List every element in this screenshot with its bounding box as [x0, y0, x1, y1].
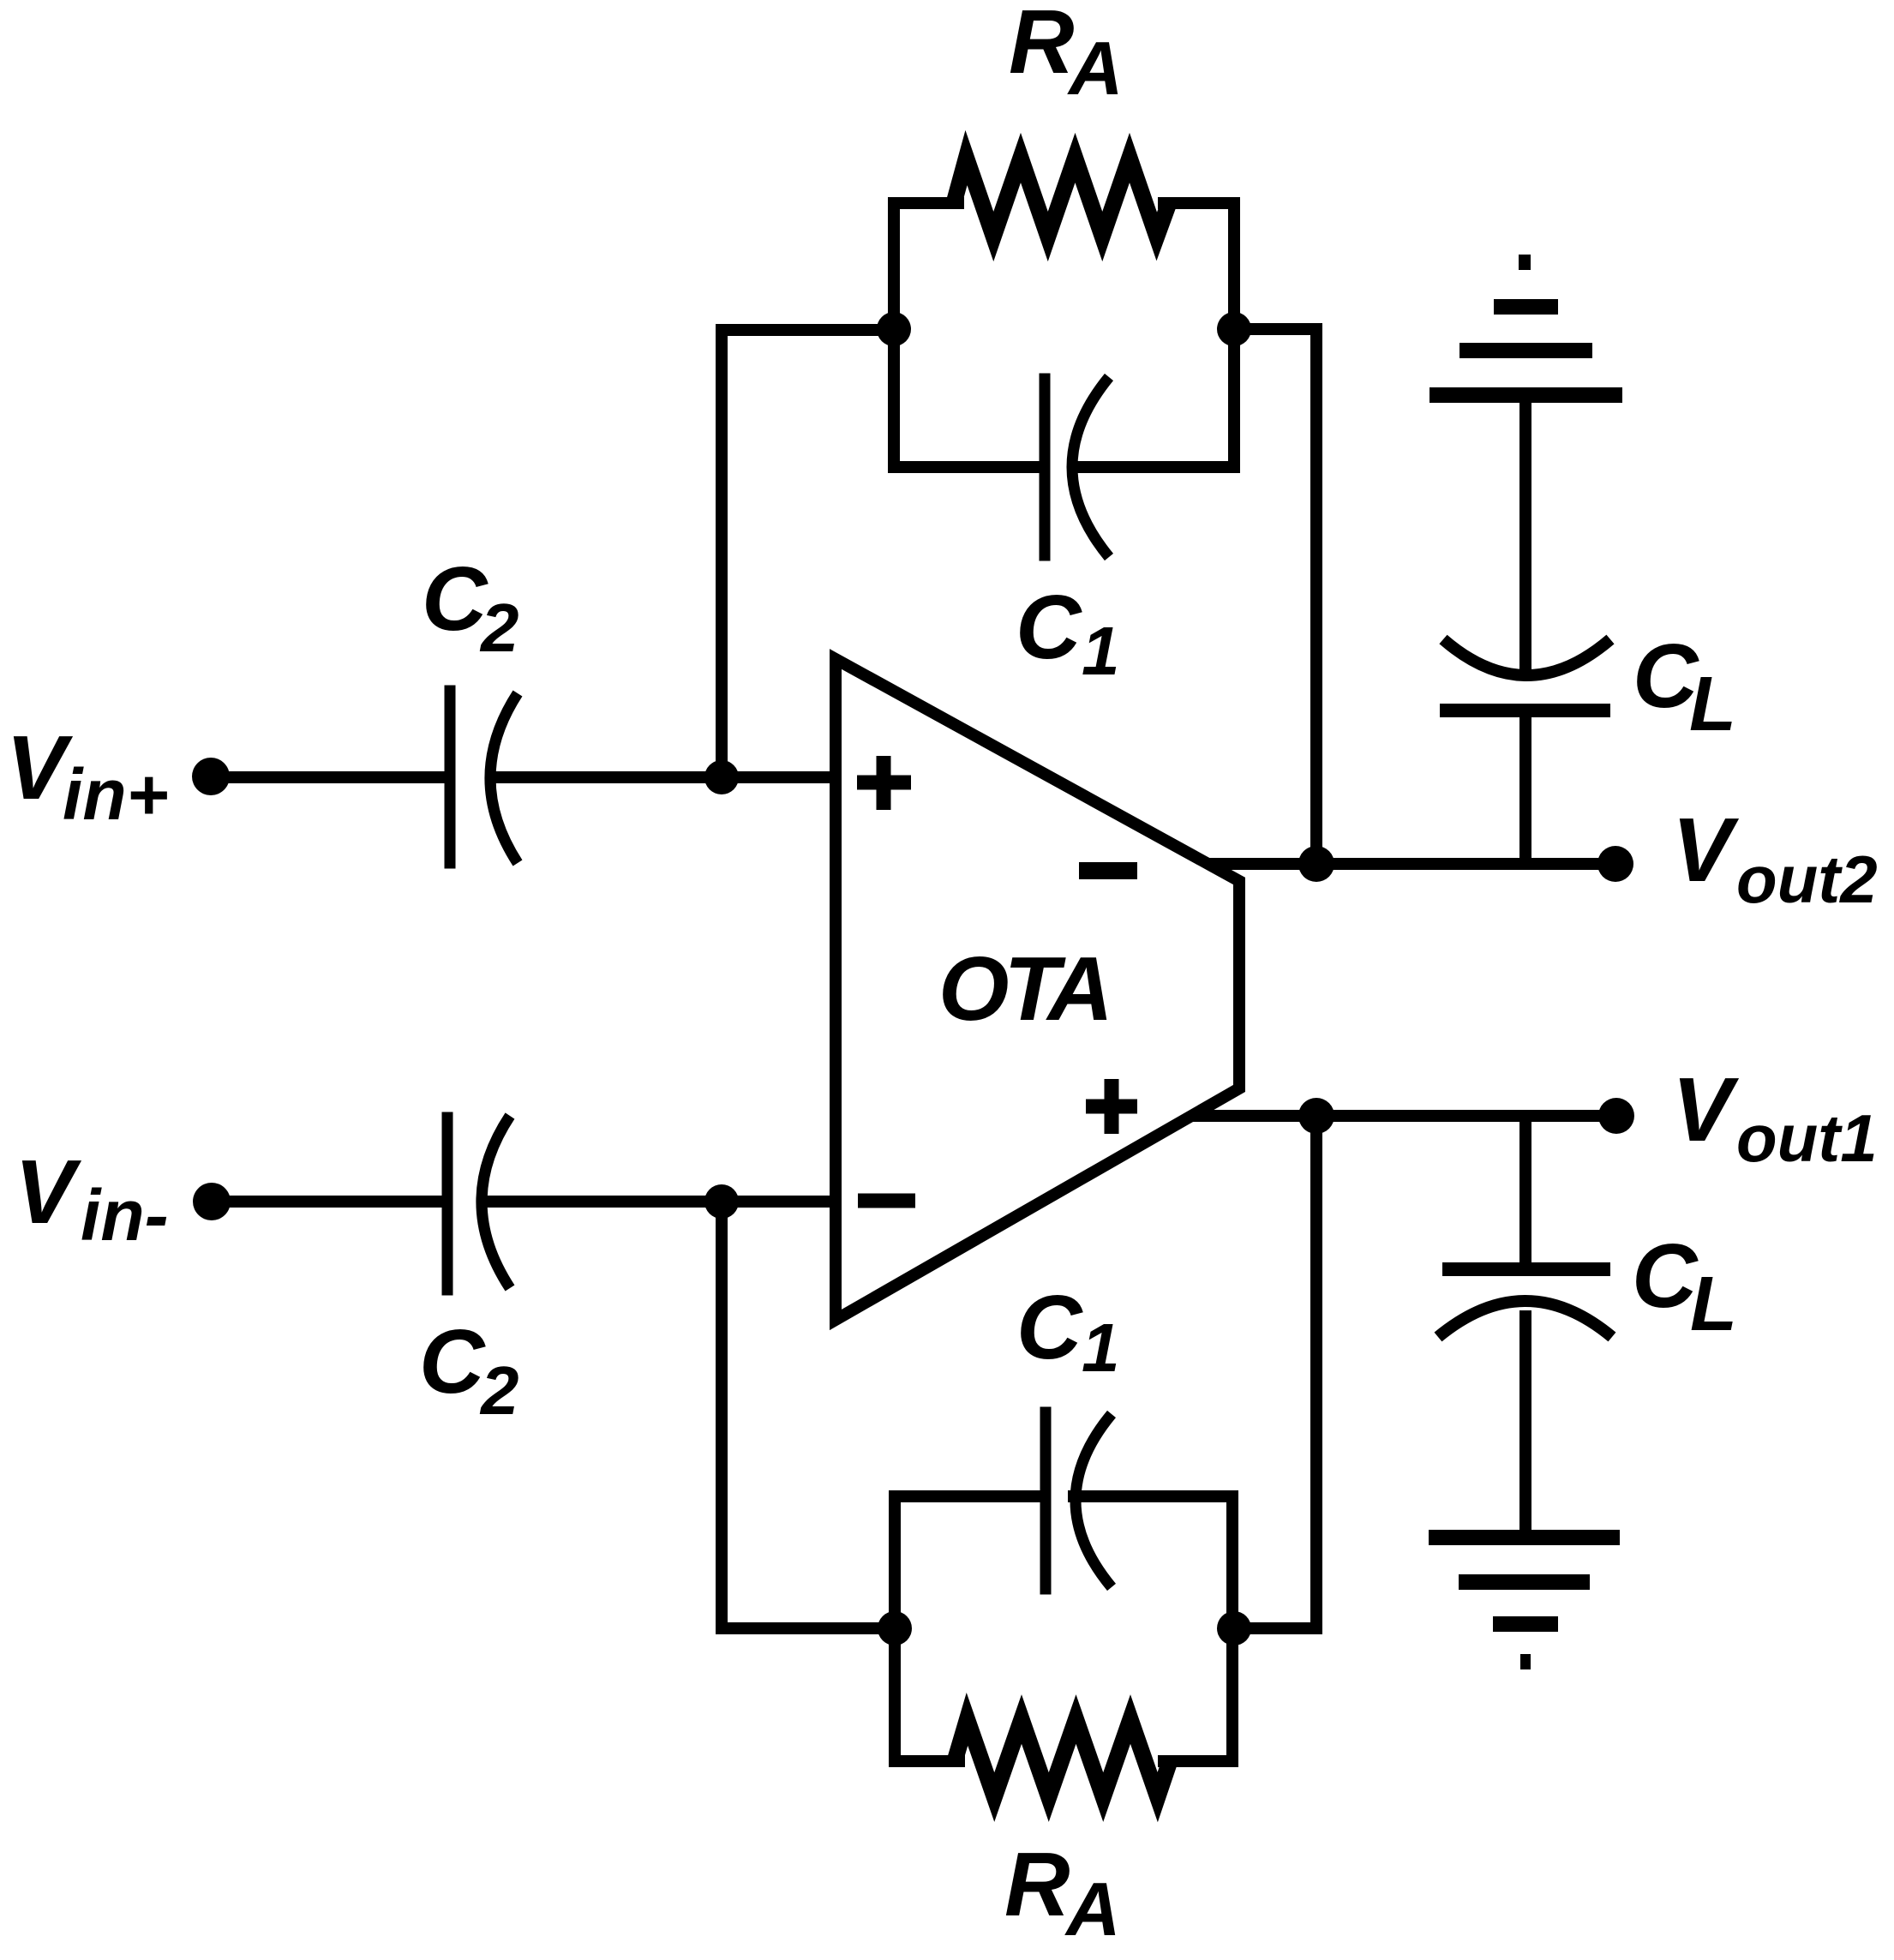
- svg-text:R: R: [1004, 1834, 1070, 1935]
- svg-text:A: A: [1064, 1867, 1121, 1951]
- svg-text:1: 1: [1082, 613, 1120, 689]
- svg-text:A: A: [1067, 26, 1124, 111]
- svg-text:2: 2: [479, 590, 519, 666]
- svg-text:R: R: [1009, 0, 1075, 93]
- svg-text:in+: in+: [63, 754, 169, 835]
- svg-text:C: C: [1016, 577, 1082, 678]
- svg-text:OTA: OTA: [938, 938, 1108, 1040]
- svg-text:V: V: [1672, 1059, 1740, 1160]
- svg-text:V: V: [1672, 800, 1740, 901]
- svg-text:2: 2: [479, 1352, 519, 1429]
- svg-text:L: L: [1690, 1262, 1737, 1347]
- svg-text:C: C: [422, 548, 488, 650]
- svg-text:C: C: [1632, 1226, 1699, 1327]
- svg-text:out1: out1: [1736, 1100, 1878, 1176]
- svg-text:in-: in-: [81, 1175, 169, 1256]
- svg-text:L: L: [1689, 662, 1736, 747]
- svg-text:out2: out2: [1736, 842, 1878, 917]
- svg-text:V: V: [15, 1142, 82, 1243]
- svg-text:C: C: [419, 1311, 486, 1412]
- svg-text:C: C: [1016, 1277, 1083, 1378]
- svg-text:1: 1: [1082, 1310, 1120, 1386]
